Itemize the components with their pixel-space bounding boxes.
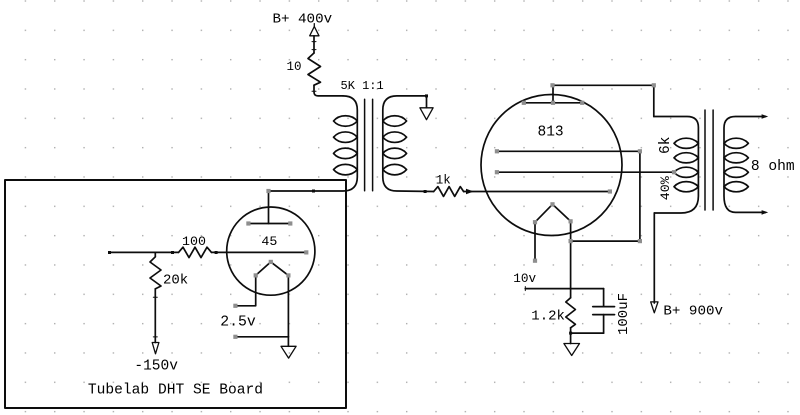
svg-text:10v: 10v: [513, 271, 536, 286]
wire stub to ground: [426, 96, 428, 108]
grip 45 plate bar ends: [246, 221, 250, 225]
813 plate: [524, 85, 582, 103]
ground (interstage secondary): [420, 108, 433, 120]
grip 813 grid line end: [608, 189, 612, 193]
transformer T1 core: [365, 99, 373, 190]
wire 1k to grid of 813 with arrowhead: [464, 189, 610, 195]
resistor 10: [308, 53, 321, 85]
svg-text:B+ 900v: B+ 900v: [663, 304, 723, 320]
node secondary top / junction dot: [425, 94, 428, 97]
grip 813 filament: [550, 202, 554, 206]
wire B+400 to R 10: [312, 36, 316, 53]
resistor 1k: [434, 187, 464, 197]
wire 100 to 45 grid: [212, 251, 307, 253]
wire stub to ground (45): [287, 337, 289, 347]
tube V2 45 envelope: [227, 207, 315, 295]
svg-text:45: 45: [261, 234, 277, 249]
wire beam plates to cathode: [571, 151, 640, 241]
813 beam plates (grid line 1): [497, 150, 640, 152]
secondary terminal arrows: [762, 114, 769, 215]
grip 813 plate bar: [522, 101, 526, 105]
power arrow B+ 900v: [651, 302, 658, 313]
grip 813 beam plate line ends: [495, 149, 499, 153]
svg-text:B+ 400v: B+ 400v: [273, 12, 333, 28]
node dot 1.2k bottom: [569, 332, 572, 335]
svg-text:40%: 40%: [658, 176, 673, 200]
svg-text:8 ohm: 8 ohm: [751, 159, 795, 175]
resistor 1.2k: [566, 289, 576, 344]
svg-text:813: 813: [538, 125, 564, 141]
grip beam-cathode wire corner: [638, 239, 642, 243]
board box Tubelab: [5, 180, 346, 408]
45 plate: [248, 191, 290, 224]
grip 813 top wire ends: [550, 83, 554, 87]
grip 45 grid end: [304, 250, 308, 254]
svg-text:Tubelab DHT SE Board: Tubelab DHT SE Board: [88, 382, 263, 398]
813 filament: [535, 204, 571, 288]
grip 813 screen line end: [495, 170, 499, 174]
resistor 100: [179, 247, 212, 257]
grip 45 filament: [269, 260, 273, 264]
grip 40% tap junction: [672, 170, 676, 174]
ground (45 filament): [281, 346, 296, 358]
wire 813 plate to OPT primary top: [553, 85, 654, 116]
transformer T1 secondary winding: [383, 96, 434, 192]
45 grid wire from left: [109, 251, 178, 253]
power arrow B+ 400v: [310, 24, 319, 36]
cathode rail 813: [525, 287, 603, 291]
transformer T2 core: [705, 110, 713, 210]
node dot mid wire to 45 plate: [312, 190, 315, 193]
transformer T2 OPT primary winding: [654, 117, 699, 214]
node dot before 1k: [424, 190, 427, 193]
power arrow -150v: [152, 343, 159, 354]
svg-text:100: 100: [182, 234, 206, 249]
813 screen grid (grid line 2) to 40% tap: [497, 171, 674, 173]
grip 45 filament terminals: [233, 304, 237, 308]
svg-text:1.2k: 1.2k: [531, 308, 565, 324]
bottom rail 813 cathode: [571, 332, 604, 334]
ground (813 cathode): [564, 344, 580, 356]
svg-text:-150v: -150v: [134, 358, 178, 374]
resistor 20k: [150, 257, 161, 289]
svg-text:10: 10: [287, 60, 302, 74]
svg-text:100uF: 100uF: [616, 293, 632, 335]
svg-text:20k: 20k: [163, 273, 188, 289]
wire OPT primary bottom to B+900: [653, 213, 655, 303]
node dots on grid wire: [108, 251, 218, 254]
wire filament return: [235, 336, 288, 338]
svg-text:2.5v: 2.5v: [220, 315, 256, 331]
transformer T2 secondary winding: [724, 117, 766, 213]
svg-text:1k: 1k: [436, 174, 451, 188]
transformer T1 interstage 5K 1:1 primary winding: [269, 96, 358, 191]
45 filament: [235, 262, 288, 337]
svg-text:6k: 6k: [658, 137, 674, 154]
capacitor 100uF: [593, 289, 615, 334]
wire grid node down to 20k: [154, 252, 156, 256]
svg-text:5K 1:1: 5K 1:1: [341, 79, 384, 93]
grip 45 plate wire: [266, 189, 270, 193]
tube V1 813 envelope: [481, 95, 622, 236]
wire 20k to -150v arrow: [153, 289, 157, 343]
wire R10 to interstage primary top: [312, 85, 343, 96]
